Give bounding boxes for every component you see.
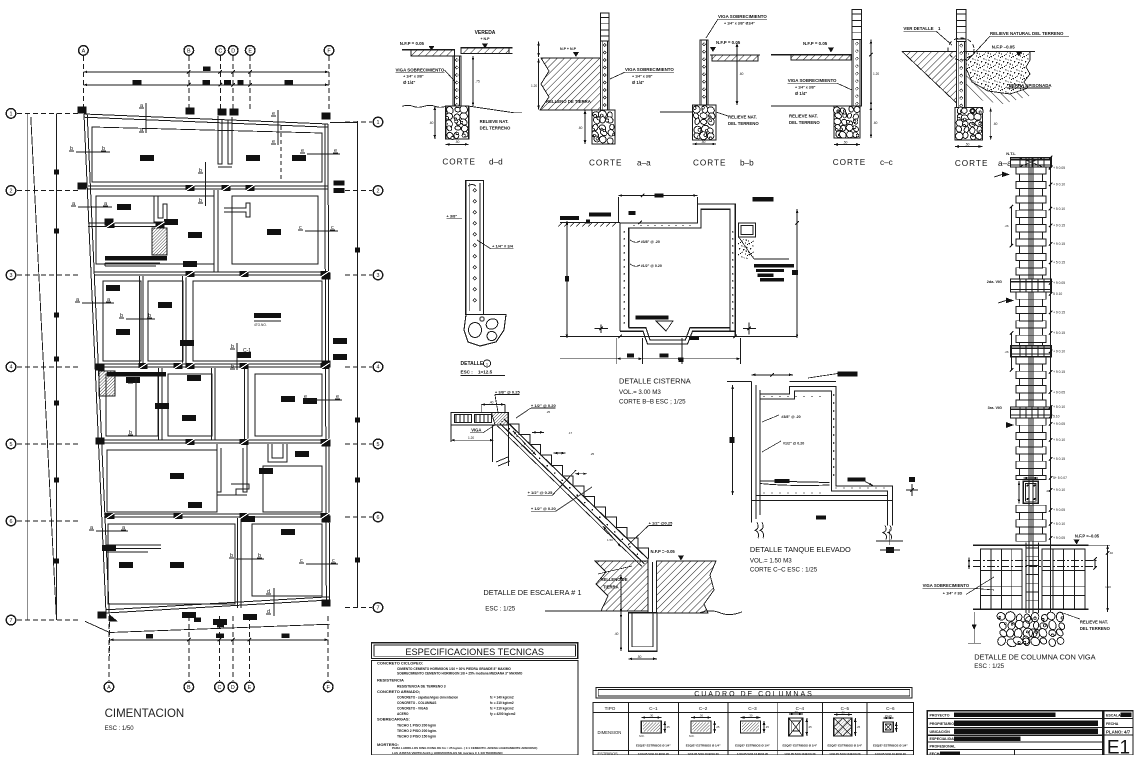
CISTERNA black bar at sump [689, 336, 699, 339]
svg-text:SOBRECIMIENTO CEMENTO HORMIGO: SOBRECIMIENTO CEMENTO HORMIGON 1/8 + 25%… [397, 672, 523, 676]
svg-text:CONCRETO ARMADO;: CONCRETO ARMADO; [377, 689, 420, 694]
CORTE c-c wall section [852, 40, 862, 107]
grid bubbles right rows 1-7 [373, 117, 383, 127]
TITLE BLOCK right cells [1104, 717, 1133, 719]
CORTE d-d ground line wavy [402, 105, 446, 107]
hatch patch row2 [152, 228, 167, 255]
svg-text:7: 7 [377, 605, 380, 611]
svg-text:VIGA SOBRECIMIENTO: VIGA SOBRECIMIENTO [923, 583, 970, 588]
svg-text:E1: E1 [1107, 738, 1130, 756]
CISTERNA right black bars [752, 197, 773, 202]
CISTERNA bottom dim extension lines [616, 338, 618, 364]
svg-text:7: 7 [10, 618, 13, 624]
svg-text:.50: .50 [455, 140, 460, 144]
svg-text:+ 1/2" @0.25: + 1/2" @0.25 [649, 520, 673, 525]
svg-text:RELIEVE NAT.: RELIEVE NAT. [480, 119, 509, 124]
svg-text:M.F.: M.F. [689, 734, 695, 738]
svg-text:A: A [82, 48, 86, 54]
svg-text:+ 9 0.10: + 9 0.10 [1053, 438, 1065, 442]
svg-text:CORTE: CORTE [693, 159, 727, 168]
CORTE d-d footing dim bottom [446, 143, 469, 145]
row2 mid vertical wall [217, 190, 219, 272]
svg-text:25x25: 25x25 [885, 714, 893, 718]
TANQUE inner floor lines [760, 481, 829, 483]
svg-text:1.20: 1.20 [468, 436, 474, 440]
svg-text:.30: .30 [699, 714, 703, 718]
TITLE BLOCK outer frame [927, 711, 1103, 755]
svg-text:#1/2" @ 0.20: #1/2" @ 0.20 [641, 264, 662, 268]
svg-text:D: D [231, 48, 235, 54]
svg-text:.25: .25 [716, 725, 720, 729]
CORTE d-d leader relieve [469, 106, 514, 113]
svg-text:.60: .60 [739, 72, 744, 76]
svg-text:#1/2" @ 0.20: #1/2" @ 0.20 [783, 441, 804, 445]
svg-text:.75: .75 [475, 80, 480, 84]
svg-text:+ 3/8": + 3/8" [446, 214, 457, 219]
CORTE a-a(2) footing stones [955, 108, 983, 140]
svg-text:VIGA SOBRECIMIENTO: VIGA SOBRECIMIENTO [396, 68, 445, 73]
COLUMNA left bracket dims [1011, 207, 1013, 246]
svg-text:+ 9 0.10: + 9 0.10 [1053, 488, 1065, 492]
row6 mid vertical wall [240, 518, 242, 608]
corner square marks [78, 107, 87, 114]
svg-text:DETALLE: DETALLE [461, 361, 484, 367]
ESCALERA ground hatch left [595, 561, 648, 611]
row 5 wall [101, 439, 328, 441]
svg-text:a–a: a–a [637, 159, 651, 168]
CORTE b-b ground leader [660, 111, 693, 113]
svg-text:CONCRETO - zapatas/vigas cimen: CONCRETO - zapatas/vigas cimentacion [397, 696, 458, 700]
svg-text:fc = 210 kg/cm2: fc = 210 kg/cm2 [490, 707, 514, 711]
CORTE d-d footing stones [446, 106, 469, 139]
ESCALERA footing dim bottom [628, 658, 657, 660]
svg-text:ESC : 1/25: ESC : 1/25 [974, 663, 1004, 670]
foundation plan grid bubbles top [79, 46, 89, 56]
COLUMNA 4th beam band [1011, 407, 1052, 418]
svg-text:.60: .60 [873, 121, 878, 125]
svg-text:fc = 210 kg/cm2: fc = 210 kg/cm2 [490, 701, 514, 705]
svg-text:CIMIENTO CEMENTO HORMIG: CIMIENTO CEMENTO HORMIGON 1/10 + 30% PIE… [397, 667, 511, 671]
svg-text:+ 9 0.15: + 9 0.15 [1053, 224, 1065, 228]
svg-text:C-1: C-1 [243, 348, 251, 354]
svg-text:+ 5 0.15: + 5 0.15 [1053, 331, 1065, 335]
svg-text:ESC : 1/50: ESC : 1/50 [105, 726, 135, 732]
CORTE d-d dim right [472, 56, 474, 106]
thick bar row4 [107, 372, 166, 377]
top dimension line 1 [83, 71, 329, 73]
svg-text:+ 3/8" @ 0.25: + 3/8" @ 0.25 [495, 389, 521, 394]
row6 left stub wall [106, 544, 161, 546]
outer wall top [84, 114, 328, 124]
svg-text:.50: .50 [965, 143, 970, 147]
svg-text:C–6: C–6 [886, 706, 895, 711]
svg-text:RESISTENCIA: RESISTENCIA [377, 678, 404, 683]
row 3 wall [94, 271, 328, 273]
ESCALERA step dims small [532, 431, 544, 433]
svg-text:.25: .25 [856, 725, 860, 729]
CORTE c-c slab left [791, 55, 851, 61]
CORTE c-c footing dim bottom [834, 144, 860, 146]
svg-text:.40: .40 [489, 401, 494, 405]
ESCALERA steps [508, 424, 648, 559]
CISTERNA right dim line [796, 209, 798, 338]
svg-text:4TO.NO.: 4TO.NO. [254, 323, 267, 327]
svg-text:ESPECIALIDAD: ESPECIALIDAD [930, 737, 957, 741]
svg-text:+ 1/4" # 3D: + 1/4" # 3D [943, 592, 963, 596]
COLUMNA core lines [1028, 157, 1030, 613]
svg-text:6: 6 [10, 519, 13, 525]
svg-text:ESQ/Eº ESTRIBOS Ø 1/4": ESQ/Eº ESTRIBOS Ø 1/4" [636, 744, 671, 748]
TITLE BLOCK row lines [927, 717, 1103, 719]
TANQUE black bars [775, 479, 790, 483]
svg-text:.50: .50 [843, 141, 848, 145]
CORTE a-a(2) dashed circle [948, 38, 974, 60]
CORTE a-a footing dim [584, 110, 586, 144]
svg-text:RELIEVE NAT.: RELIEVE NAT. [789, 114, 818, 119]
svg-text:ESQ/Eº ESTRIBOS Ø 1/4": ESQ/Eº ESTRIBOS Ø 1/4" [735, 744, 770, 748]
svg-text:+ 1/2" @ 0.20: + 1/2" @ 0.20 [531, 506, 557, 511]
svg-text:CORTE B–B ESC ; 1/25: CORTE B–B ESC ; 1/25 [619, 399, 686, 406]
svg-text:+ 9 0.05: + 9 0.05 [1053, 536, 1065, 540]
svg-text:VIGA: VIGA [471, 428, 481, 433]
svg-text:CORTE: CORTE [589, 159, 623, 168]
COLUMNA section box [1023, 481, 1038, 503]
svg-text:.25: .25 [546, 410, 551, 414]
COLUMNA top beam band [1011, 157, 1052, 167]
svg-text:A: A [107, 685, 111, 691]
svg-text:UBICACIÓN: UBICACIÓN [930, 729, 951, 734]
svg-text:1.20: 1.20 [873, 72, 879, 76]
svg-text:C–3: C–3 [748, 706, 757, 711]
svg-text:.25: .25 [590, 452, 595, 456]
row4 vertical walls [161, 368, 163, 440]
svg-text:PARA LADRILLOS KING KONG DE f: PARA LADRILLOS KING KONG DE fm = 25 kg/c… [392, 746, 537, 750]
svg-text:VOL.= 3.00 M3: VOL.= 3.00 M3 [619, 389, 661, 396]
svg-text:.30: .30 [841, 711, 845, 715]
TITLE BLOCK right column frame [1104, 711, 1133, 755]
grid bubbles bottom [104, 682, 114, 692]
CISTERNA left dim line [566, 221, 568, 338]
svg-text:DEL TERRENO: DEL TERRENO [480, 126, 511, 131]
row 2 wall [88, 185, 328, 187]
CORTE a-a(2) footing dim bottom [955, 146, 983, 148]
COLUMNA brick stack mid [1016, 292, 1046, 299]
svg-text:DEL TERRENO: DEL TERRENO [728, 121, 759, 126]
COLUMNA brick stack upper [1016, 167, 1046, 174]
COLUMNA right dim after beam [1049, 156, 1053, 160]
svg-text:.25: .25 [666, 725, 670, 729]
ESCALERA beam below lines [492, 425, 494, 462]
CUADRO table frame [593, 702, 914, 755]
svg-text:TECHO 1 PISO 200 kg/m: TECHO 1 PISO 200 kg/m [397, 724, 436, 728]
CISTERNA top-right beam box [739, 223, 756, 237]
row5 slot wall [217, 444, 221, 492]
svg-text:+ 9 0.05: + 9 0.05 [1053, 508, 1065, 512]
svg-text:.60: .60 [993, 122, 998, 126]
TANQUE top black bar [838, 372, 858, 377]
svg-text:1=12.5: 1=12.5 [478, 370, 493, 375]
svg-text:DETALLE DE COLUMNA CON VIGA: DETALLE DE COLUMNA CON VIGA [974, 653, 1095, 662]
ESCALERA rebar dots on slab [501, 421, 503, 423]
CORTE b-b footing stones [693, 105, 717, 140]
COLUMNA mesh left block [981, 549, 1023, 609]
svg-text:3: 3 [10, 273, 13, 279]
row1 dashed partition E [280, 126, 282, 182]
ESCALERA wall below [647, 558, 649, 613]
svg-text:DETALLE DE ESCALERA # 1: DETALLE DE ESCALERA # 1 [483, 588, 581, 597]
row5 right U wall [268, 444, 287, 462]
COLUMNA mesh right block [1042, 549, 1085, 609]
svg-text:DETALLE CISTERNA: DETALLE CISTERNA [619, 377, 691, 386]
hatch patch row4 [99, 371, 115, 396]
svg-text:+ 9 0.15: + 9 0.15 [1053, 370, 1065, 374]
svg-text:+ 1/4" x 3/8" Ø1/4": + 1/4" x 3/8" Ø1/4" [724, 22, 755, 26]
svg-text:+ 1/4" x 3/8": + 1/4" x 3/8" [632, 75, 653, 79]
grid dashed lines vertical [82, 56, 84, 112]
svg-text:fc = 140 kg/cm2: fc = 140 kg/cm2 [490, 696, 514, 700]
svg-text:.40: .40 [614, 632, 619, 636]
svg-text:E: E [248, 685, 252, 691]
svg-text:CONCRETO - VIGAS: CONCRETO - VIGAS [397, 707, 428, 711]
svg-text:.40: .40 [1109, 551, 1114, 555]
COLUMNA brick stack lower [1016, 418, 1046, 425]
row 6 wall [104, 513, 328, 515]
ESCALERA diag dim 1 [513, 431, 536, 455]
svg-text:N.P + N.P: N.P + N.P [560, 47, 577, 51]
svg-text:VOL.= 1.50 M3: VOL.= 1.50 M3 [750, 558, 792, 565]
CORTE b-b sidewalk slab right [712, 55, 758, 61]
svg-text:6: 6 [377, 515, 380, 521]
svg-text:PROYECTO: PROYECTO [930, 714, 950, 718]
ESCALERA left dim [450, 425, 452, 442]
CORTE a-a(2) hatch below stipple [966, 68, 1033, 104]
CORTE c-c footing stones [834, 106, 860, 138]
svg-text:C: C [217, 685, 221, 691]
svg-text:+ 9 0.10: + 9 0.10 [1053, 350, 1065, 354]
CISTERNA black bar above floor [636, 316, 669, 320]
CORTE d-d ground slab left (hatched) [411, 50, 455, 56]
ESCALERA diag dim 2 [603, 526, 621, 547]
lot boundary lines left [26, 113, 28, 620]
grid bubbles left rows 1-7 [6, 109, 16, 119]
CORTE c-c dim right [870, 40, 872, 107]
svg-text:2: 2 [10, 188, 13, 194]
svg-text:.26: .26 [1004, 350, 1009, 354]
svg-text:5 0.10: 5 0.10 [1053, 292, 1062, 296]
outer wall right [328, 124, 330, 600]
row2 horizontal stub wall [88, 222, 160, 224]
svg-text:M.F.: M.F. [639, 734, 645, 738]
svg-text:FECHA: FECHA [1106, 722, 1119, 726]
COLUMNA brick stack mid2 [1016, 357, 1046, 364]
svg-text:+ 1/4" # 3/4: + 1/4" # 3/4 [492, 244, 514, 249]
svg-text:N.F.P = 0.05: N.F.P = 0.05 [400, 41, 425, 46]
COLUMNA right dim line full [1050, 157, 1052, 613]
svg-text:2: 2 [377, 188, 380, 194]
TANQUE right small dim [911, 484, 913, 496]
svg-text:5+ 5 0.07: 5+ 5 0.07 [1053, 476, 1067, 480]
svg-text:CORTE: CORTE [833, 158, 867, 167]
column footing symbols (filled) [140, 155, 154, 161]
outer wall left [84, 114, 106, 613]
CISTERNA bottom ground line [560, 335, 797, 337]
svg-text:DEL TERRENO: DEL TERRENO [789, 120, 820, 125]
svg-text:CONCRETO - COLUMNAS: CONCRETO - COLUMNAS [397, 701, 436, 705]
CUADRO column diagrams [641, 721, 661, 733]
svg-text:fy = 4200 kg/cm2: fy = 4200 kg/cm2 [490, 712, 516, 716]
svg-text:4: 4 [377, 365, 380, 371]
svg-text:PROFESIONAL: PROFESIONAL [930, 745, 957, 749]
COLUMNA 3rd beam band [1011, 346, 1052, 357]
COLUMNA brick stack bottom [1016, 505, 1046, 512]
CORTE d-d wall section [453, 56, 461, 106]
svg-text:C–1: C–1 [649, 706, 658, 711]
svg-text:PROPIETARIO: PROPIETARIO [930, 722, 955, 726]
COLUMNA dash-dot lines through mesh [973, 559, 1096, 561]
row1 slot wall [218, 116, 222, 164]
CORTE a-a(2) masonry wall above [957, 10, 967, 42]
svg-text:TIERRA: TIERRA [603, 585, 619, 590]
svg-text:+ N.P: + N.P [480, 37, 490, 41]
CORTE b-b wall section [700, 40, 708, 105]
svg-text:+ 1/4" x 3/8": + 1/4" x 3/8" [795, 86, 816, 90]
ESCALERA hatched beam end [491, 413, 508, 425]
svg-text:ESQ/Eº ESTRIBOS Ø 1/4": ESQ/Eº ESTRIBOS Ø 1/4" [873, 744, 908, 748]
svg-text:.60: .60 [578, 126, 583, 130]
svg-text:.75: .75 [520, 444, 525, 448]
ESCALERA footing dim left [620, 575, 622, 613]
svg-text:+ 1/4" x 3/8": + 1/4" x 3/8" [403, 75, 424, 79]
svg-text:+ 1/2" @ 0.25: + 1/2" @ 0.25 [528, 490, 554, 495]
svg-text:CUADRO DE COLUMNAS: CUADRO DE COLUMNAS [694, 691, 814, 698]
rooms row6 [108, 524, 235, 604]
svg-text:VIGA SOBRECIMIENTO: VIGA SOBRECIMIENTO [625, 67, 674, 72]
svg-text:+ 5 0.15: + 5 0.15 [1053, 457, 1065, 461]
CISTERNA small dims bottom [600, 324, 602, 333]
svg-text:ESQ/Eº ESTRIBOS Ø 1/4": ESQ/Eº ESTRIBOS Ø 1/4" [782, 744, 817, 748]
svg-text:3: 3 [377, 273, 380, 279]
svg-text:N.F.P =–0.05: N.F.P =–0.05 [651, 549, 676, 554]
svg-text:ESCALA: ESCALA [1106, 714, 1121, 718]
svg-text:+ 5 0.10: + 5 0.10 [1053, 207, 1065, 211]
svg-text:RELIEVE NATURAL DEL TERRENO: RELIEVE NATURAL DEL TERRENO [990, 31, 1064, 36]
row 4 wall [98, 363, 328, 365]
svg-text:.25: .25 [808, 725, 812, 729]
svg-text:DEL TERRENO: DEL TERRENO [1080, 626, 1111, 631]
svg-text:RELIEVE NAT.: RELIEVE NAT. [728, 115, 757, 120]
svg-text:Ø 1/4": Ø 1/4" [403, 80, 415, 85]
svg-text:ESC : 1/25: ESC : 1/25 [485, 606, 515, 613]
svg-text:ACERO: ACERO [397, 712, 409, 716]
svg-text:.60: .60 [429, 121, 434, 125]
CISTERNA left ground line hatch [560, 222, 620, 224]
svg-text:+ 9 0.10: + 9 0.10 [1053, 183, 1065, 187]
svg-text:.26: .26 [1004, 224, 1009, 228]
svg-text:RESISTENCIA DE TERRENO 3: RESISTENCIA DE TERRENO 3 [397, 685, 446, 689]
svg-text:N.F.P =–0.05: N.F.P =–0.05 [1075, 534, 1100, 539]
CISTERNA tank outline [620, 204, 735, 336]
svg-text:N.T.L: N.T.L [1006, 151, 1016, 156]
COLUMNA ladder through mesh [1025, 542, 1027, 613]
CORTE c-c masonry wall above [852, 10, 862, 40]
svg-text:1: 1 [10, 111, 13, 117]
COLUMNA right vertical dim [1107, 545, 1109, 612]
rooms row2 [96, 196, 214, 264]
svg-text:VIGA SOBRECIMIENTO: VIGA SOBRECIMIENTO [788, 78, 837, 83]
svg-text:CONCRETO CICLOPEO:: CONCRETO CICLOPEO: [377, 661, 423, 666]
svg-text:ESPECIFICACIONES TECNICAS: ESPECIFICACIONES TECNICAS [405, 647, 544, 657]
ESCALERA ground hatch right [656, 561, 716, 613]
TANQUE outline [760, 386, 892, 525]
svg-text:1.20: 1.20 [1105, 585, 1111, 589]
CUADRO header box [596, 688, 912, 699]
svg-text:VEREDA: VEREDA [475, 30, 496, 36]
CISTERNA floor with sump [629, 328, 730, 340]
rooms row4 [106, 374, 158, 436]
svg-text:.30: .30 [794, 710, 798, 714]
svg-text:ESTRIBOS: ESTRIBOS [598, 751, 619, 755]
TANQUE bottom slab lines [756, 495, 888, 497]
svg-text:.50: .50 [701, 140, 706, 144]
ESCALERA ground bottom line [545, 610, 628, 612]
svg-text:E: E [248, 48, 252, 54]
DETALLE 1 wall strip [466, 181, 484, 315]
svg-text:DETALLE TANQUE ELEVADO: DETALLE TANQUE ELEVADO [750, 545, 851, 554]
rooms row3 [103, 281, 141, 361]
svg-text:ESQ/Eº ESTRIBOS Ø 1/4": ESQ/Eº ESTRIBOS Ø 1/4" [827, 744, 862, 748]
svg-text:TECHO 3 PISO 150 kg/m: TECHO 3 PISO 150 kg/m [397, 735, 436, 739]
svg-text:.50: .50 [637, 655, 642, 659]
svg-text:RELLENO DE TIERRA: RELLENO DE TIERRA [546, 99, 591, 104]
junction marks [186, 185, 195, 191]
row3 vertical walls [142, 276, 144, 364]
svg-text:Ø 1/4": Ø 1/4" [795, 91, 807, 96]
svg-text:1.20: 1.20 [531, 84, 537, 88]
svg-text:CORTE: CORTE [442, 158, 476, 167]
svg-text:1.50: 1.50 [607, 538, 613, 542]
svg-text:+ 9 0.05: + 9 0.05 [1053, 390, 1065, 394]
row2 right H wall [224, 203, 250, 217]
CORTE d-d footing dim left [434, 106, 436, 139]
svg-text:.17: .17 [568, 431, 573, 435]
svg-text:PLANO: 4/7: PLANO: 4/7 [1106, 729, 1131, 734]
TANQUE right end dims [889, 529, 891, 545]
COLUMNA 2nd beam band [1011, 279, 1052, 292]
svg-text:4: 4 [10, 365, 13, 371]
ESCALERA top dim [481, 404, 505, 406]
CISTERNA top dimension [618, 195, 697, 197]
CORTE a-a dim left [538, 42, 540, 57]
svg-text:CIMENTACION: CIMENTACION [105, 708, 185, 720]
svg-text:+ 5 0.10: + 5 0.10 [1053, 405, 1065, 409]
TANQUE top slab [790, 381, 836, 383]
TANQUE bottom pipes [755, 522, 759, 538]
row2 left hook wall [154, 196, 167, 222]
svg-text:ESQ/Eº ESTRIBOS Ø 1/4": ESQ/Eº ESTRIBOS Ø 1/4" [686, 744, 721, 748]
svg-text:c–c: c–c [880, 158, 893, 167]
svg-text:D: D [231, 685, 235, 691]
TANQUE left dim [732, 385, 734, 495]
svg-text:C–2: C–2 [699, 706, 708, 711]
lot boundary line under plan [110, 624, 331, 632]
svg-text:3ra. VIG: 3ra. VIG [988, 406, 1002, 410]
svg-text:#3/8" @ .20: #3/8" @ .20 [781, 415, 800, 419]
svg-text:.30: .30 [749, 714, 753, 718]
svg-text:TIERRA APISONADA: TIERRA APISONADA [1008, 83, 1052, 88]
svg-text:5: 5 [10, 442, 13, 448]
svg-text:5: 5 [377, 442, 380, 448]
svg-text:b–b: b–b [740, 159, 754, 168]
